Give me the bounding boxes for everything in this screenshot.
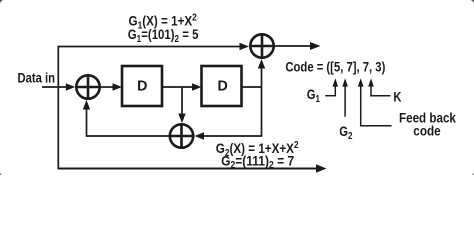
annotation arrow 2 to first "7" down to label G2 xyxy=(342,78,348,116)
wire XOR3 feedback output left and up into XOR1 xyxy=(83,100,169,137)
svg-text:code: code xyxy=(413,122,440,138)
node B wire down and left into adder XOR3 xyxy=(195,87,263,140)
register D2 xyxy=(202,66,242,106)
svg-text:D: D xyxy=(218,78,228,94)
svg-text:G2: G2 xyxy=(339,124,352,141)
wire XOR1 output to register D1 xyxy=(101,83,122,90)
svg-text:Code = ([5, 7], 7, 3): Code = ([5, 7], 7, 3) xyxy=(285,58,385,75)
wire left vertical tap from input node down and up xyxy=(57,47,59,169)
wire bottom output branch (systematic output) xyxy=(58,164,327,172)
wire input from Data in to adder XOR1 xyxy=(42,83,75,90)
annotation arrow 3 to second "7" with elbow to label Feed back code xyxy=(358,78,392,126)
decorative corner marks (cropped rounded border tips) xyxy=(0,0,474,175)
wire top branch to adder XOR2 xyxy=(58,43,250,50)
annotation arrow 1 to "5" with elbow from label G1 xyxy=(325,78,338,96)
wire XOR2 output arrow (G1 parity output) xyxy=(275,42,321,50)
svg-text:D: D xyxy=(137,78,147,94)
register D1 xyxy=(122,66,162,106)
adder XOR3 xyxy=(169,123,194,148)
svg-text:Data in: Data in xyxy=(18,70,56,85)
node A junction between D1 and D2, wire down to adder XOR3 xyxy=(178,87,185,123)
node B wire up into adder XOR2 xyxy=(258,59,265,87)
annotation arrow 4 to "3" with elbow to label K xyxy=(368,78,390,96)
svg-text:G1: G1 xyxy=(307,87,320,104)
wire D2 output to node B xyxy=(242,86,262,88)
adder XOR2 xyxy=(249,33,274,58)
svg-text:K: K xyxy=(393,89,402,104)
adder XOR1 xyxy=(75,74,100,99)
wire D1 output to register D2 xyxy=(162,83,202,90)
